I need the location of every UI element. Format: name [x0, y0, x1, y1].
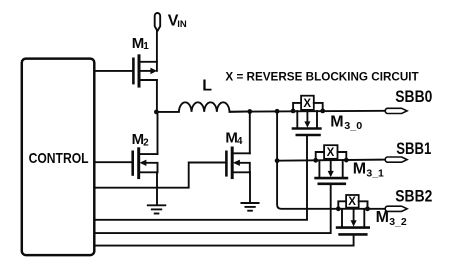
svg-text:4: 4 [237, 136, 243, 147]
node X2 left [313, 158, 318, 163]
reverse blocking box X3 [338, 195, 367, 209]
svg-text:SBB0: SBB0 [395, 88, 432, 106]
reverse blocking box X2 [316, 145, 347, 160]
svg-text:M: M [330, 114, 343, 131]
Vin terminal [155, 13, 161, 31]
ground (M4) [241, 203, 258, 211]
node X3 left [336, 206, 341, 211]
svg-text:X: X [348, 196, 356, 208]
reverse blocking box X1 [293, 96, 323, 111]
transistor M3_2 [337, 209, 369, 235]
wire SBB1 line [277, 160, 385, 161]
node X2 right [344, 158, 349, 163]
SBB1 terminal [385, 157, 407, 162]
SBB2 terminal [385, 206, 407, 211]
inductor L [156, 102, 249, 112]
svg-text:3_1: 3_1 [366, 167, 384, 179]
node M4 drain junction [247, 109, 252, 114]
wire M2 gate from CONTROL [94, 161, 131, 163]
svg-text:CONTROL: CONTROL [29, 150, 89, 167]
svg-text:X: X [327, 147, 335, 159]
node rail junction [275, 109, 280, 114]
svg-text:M: M [353, 161, 366, 178]
node rail SBB1 junction [275, 158, 280, 163]
node X3 right [365, 206, 370, 211]
wire M2 source to ground [156, 172, 158, 205]
wire M3_0 gate to CONTROL (bus 1) [94, 135, 307, 220]
svg-text:IN: IN [177, 19, 187, 30]
wire M4 source to ground [249, 172, 251, 202]
wire M3_2 gate to CONTROL (bus 3) [94, 234, 353, 245]
svg-text:3_0: 3_0 [344, 120, 362, 132]
SBB0 terminal [385, 108, 407, 113]
svg-text:SBB2: SBB2 [395, 187, 432, 205]
wire rail down + SBB2 line [277, 111, 385, 209]
transistor M4 [226, 148, 249, 178]
wire M2 drain up to node [157, 112, 159, 154]
wire M4 drain up to node [249, 112, 251, 154]
wire M3_1 gate to CONTROL (bus 2) [94, 184, 330, 233]
transistor M1 [133, 56, 157, 86]
wire Vin to M1 drain/body [156, 31, 158, 71]
node junction L/M1/M2 [154, 110, 159, 115]
svg-text:L: L [202, 78, 212, 95]
CONTROL block [22, 59, 95, 256]
svg-text:2: 2 [143, 138, 149, 149]
wire main rail to SBB0 [230, 110, 385, 113]
wire CONTROL to M4 gate [94, 163, 225, 188]
svg-text:1: 1 [143, 41, 149, 52]
ground (M2) [148, 205, 166, 213]
wire M1 gate from CONTROL [94, 70, 132, 72]
svg-text:SBB1: SBB1 [396, 140, 431, 158]
svg-text:3_2: 3_2 [389, 216, 407, 228]
transistor M2 [133, 149, 158, 178]
transistor M3_1 [316, 160, 347, 184]
wire M1 source down to node [156, 80, 158, 112]
node X1 left [291, 109, 296, 114]
node X1 right [320, 109, 325, 114]
svg-text:X: X [303, 98, 311, 110]
transistor M3_0 [293, 111, 320, 135]
svg-text:X = REVERSE BLOCKING CIRCUIT: X = REVERSE BLOCKING CIRCUIT [225, 71, 418, 83]
